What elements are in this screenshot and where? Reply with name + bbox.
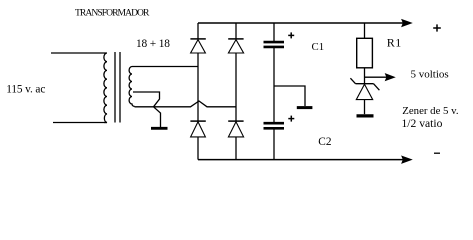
svg-text:R1: R1	[387, 35, 402, 49]
arrow + output terminal	[402, 20, 412, 27]
svg-text:TRANSFORMADOR: TRANSFORMADOR	[75, 8, 150, 19]
diode D1	[190, 23, 205, 53]
label C2	[318, 136, 332, 148]
wire midpoint to ground	[274, 86, 305, 106]
label TRANSFORMADOR	[75, 8, 150, 19]
wire R1 to zener	[364, 68, 366, 84]
transformer T1 core	[115, 52, 120, 123]
wire 5V output branch	[365, 76, 388, 78]
wire D1 anode to D3 cathode (node A)	[197, 53, 199, 121]
label C1	[312, 41, 325, 53]
wire bottom rail (- DC)	[198, 159, 404, 161]
svg-text:1/2 vatio: 1/2 vatio	[402, 117, 443, 130]
label 115 v. ac	[6, 83, 45, 95]
label + (top right)	[433, 24, 441, 31]
diode D4	[228, 121, 243, 160]
svg-text:115 v. ac: 115 v. ac	[6, 83, 45, 95]
resistor R1	[357, 23, 373, 68]
wire center tap to ground	[154, 107, 161, 127]
label - (bottom right)	[434, 152, 440, 154]
label 18 + 18	[136, 38, 170, 50]
wire secondary top to bridge node A	[132, 66, 198, 68]
ground transformer center tap	[151, 127, 168, 130]
label 5 voltios	[411, 69, 449, 81]
svg-text:5 voltios: 5 voltios	[411, 69, 449, 81]
capacitor C1	[264, 23, 285, 47]
label + of C2	[288, 116, 294, 122]
diode D3	[190, 121, 205, 160]
wire primary bottom lead	[53, 122, 107, 124]
label R1	[387, 35, 402, 49]
wire secondary bottom to bridge node B (with hop over D1-D3 wire)	[135, 101, 237, 107]
svg-text:C1: C1	[312, 41, 325, 53]
diode D2	[228, 23, 243, 53]
label Zener de 5 v.	[402, 105, 459, 130]
ground capacitor midpoint	[297, 106, 313, 109]
transformer T1 primary winding	[104, 53, 107, 122]
ground zener	[357, 114, 374, 117]
arrow - output terminal	[402, 156, 412, 163]
wire secondary center tap	[133, 92, 160, 107]
svg-text:18 + 18: 18 + 18	[136, 38, 170, 50]
wire top rail (+ DC)	[198, 22, 404, 24]
svg-text:C2: C2	[318, 136, 332, 148]
svg-text:Zener de 5 v.: Zener de 5 v.	[402, 105, 458, 117]
capacitor C2	[264, 123, 285, 159]
wire primary top lead	[51, 52, 104, 54]
wire C1 to C2	[273, 48, 275, 122]
wire D2 anode to D4 cathode (node B)	[235, 53, 237, 121]
transformer T1 secondary winding	[129, 67, 134, 107]
zener diode Z1	[350, 78, 379, 114]
arrow 5V output terminal	[385, 74, 394, 81]
label + of C1	[288, 32, 294, 38]
